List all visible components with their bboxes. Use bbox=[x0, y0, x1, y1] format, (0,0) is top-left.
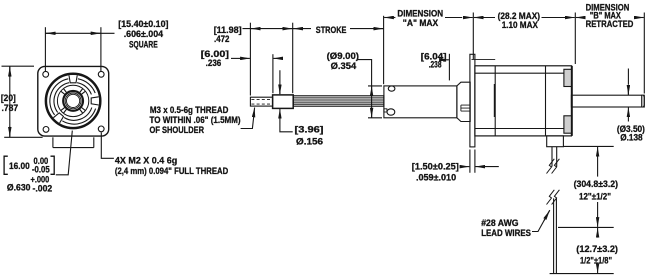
lead wires upper bundle bbox=[552, 147, 557, 167]
ext line shoulder left bbox=[272, 54, 274, 93]
can lip line top bbox=[475, 72, 572, 74]
svg-text:.238: .238 bbox=[429, 60, 442, 70]
bracket right of 16.00 bbox=[51, 156, 55, 174]
mounting flange plate (edge view) bbox=[470, 54, 475, 147]
dim 20 extension line bottom bbox=[4, 136, 42, 138]
front view: motor flange plate bbox=[38, 66, 109, 136]
rotor ring outer arcs with gaps bbox=[50, 79, 96, 124]
dim 3.96 arrow up and leader bbox=[279, 109, 281, 119]
dim 3.96 arrow down (above shoulder) bbox=[279, 70, 281, 94]
svg-text:[20]: [20] bbox=[1, 93, 16, 103]
ext line screw tip bbox=[249, 23, 251, 96]
bracket left of 16.00 bbox=[4, 156, 8, 174]
dim 15.40 arrow left bbox=[46, 32, 56, 34]
svg-text:.472: .472 bbox=[214, 34, 229, 44]
dim 11.98 line bbox=[243, 28, 293, 30]
clamp ring slot bbox=[461, 105, 470, 111]
svg-text:RETRACTED: RETRACTED bbox=[586, 19, 634, 29]
svg-text:[1.50±0.25]: [1.50±0.25] bbox=[412, 162, 459, 172]
dia 9.00 ext ticks bbox=[368, 86, 382, 118]
leader dia .630 bbox=[56, 131, 73, 175]
dim stroke line right bbox=[350, 28, 384, 30]
svg-text:Ø.354: Ø.354 bbox=[331, 61, 357, 71]
stud thread dashed line lower bbox=[251, 103, 272, 105]
leader lead wires bbox=[532, 210, 550, 231]
ring tab lower-left bbox=[53, 113, 63, 123]
mounting hole bottom-right bbox=[98, 126, 104, 132]
svg-text:Ø.138: Ø.138 bbox=[620, 133, 642, 143]
dim 12.7 upper arrow bbox=[597, 228, 599, 238]
dim stroke arrow left bbox=[293, 28, 303, 30]
motor can body bbox=[475, 66, 572, 136]
dim 6.00 leader line bbox=[231, 57, 247, 59]
lead wires lower bundle bbox=[554, 198, 557, 273]
svg-text:1.10 MAX: 1.10 MAX bbox=[502, 20, 539, 30]
mounting hole top-left bbox=[43, 71, 49, 77]
dia 9.00 leader bracket bbox=[357, 60, 372, 118]
dim 28.2 line and arrows bbox=[474, 17, 484, 19]
svg-text:-0.05: -0.05 bbox=[32, 165, 50, 175]
dim stroke arrow right bbox=[373, 28, 383, 30]
lead wire exit block bbox=[547, 136, 564, 147]
mounting hole top-right bbox=[98, 71, 104, 77]
svg-text:(304.8±3.2): (304.8±3.2) bbox=[574, 179, 618, 189]
svg-text:STROKE: STROKE bbox=[316, 25, 347, 35]
dim 6.00 arrow right bbox=[240, 57, 250, 59]
svg-text:4X M2 X 0.4 6g: 4X M2 X 0.4 6g bbox=[115, 156, 178, 166]
svg-text:#28 AWG: #28 AWG bbox=[481, 218, 518, 228]
dim 304.8 line lower segment with down arrow bbox=[597, 202, 599, 217]
dim B arrows bbox=[576, 17, 586, 19]
svg-text:(Ø9.00): (Ø9.00) bbox=[327, 51, 359, 61]
dia 9.00 arrow down bbox=[371, 108, 373, 118]
can right edge thick bbox=[571, 66, 573, 136]
svg-text:SQUARE: SQUARE bbox=[129, 39, 158, 49]
wire break mark upper bbox=[547, 159, 560, 174]
dim 6.04 ext line bbox=[448, 54, 450, 81]
can lip line bottom bbox=[475, 128, 572, 130]
pilot under-bracket left leg bbox=[52, 137, 54, 147]
shaft bore circle bbox=[67, 94, 80, 107]
svg-text:OF SHOULDER: OF SHOULDER bbox=[150, 125, 205, 135]
dim 12.7 lower arrow bbox=[597, 266, 599, 273]
ext line flange face bbox=[472, 13, 474, 60]
pilot boss circle (thick) bbox=[46, 74, 100, 128]
bushing circle bbox=[65, 93, 81, 109]
front housing sleeve (dia 9) bbox=[384, 86, 457, 118]
lead screw M3 threaded stud bbox=[250, 97, 272, 106]
leader 4X M2 holes bbox=[101, 133, 114, 159]
dim 20 extension line top bbox=[2, 65, 35, 67]
bearing tab lower-right bbox=[564, 116, 572, 133]
svg-text:-.002: -.002 bbox=[33, 184, 53, 194]
dia 3.50 arrow down bbox=[627, 69, 629, 95]
can seam front bbox=[494, 66, 496, 136]
wire break mark lower bbox=[547, 190, 560, 205]
dim stroke line left bbox=[293, 28, 311, 30]
svg-text:.236: .236 bbox=[206, 58, 222, 68]
ring tab top bbox=[69, 75, 77, 83]
spoke upper-left bbox=[61, 88, 67, 94]
spoke lower-right bbox=[79, 107, 85, 113]
leader M3 thread arrow bbox=[241, 113, 255, 129]
ext line shaft end bbox=[643, 13, 645, 94]
ring tab right bbox=[91, 97, 99, 105]
wire dim ext line bottom bbox=[550, 273, 614, 275]
svg-text:.787: .787 bbox=[2, 103, 19, 113]
housing hole upper bbox=[388, 86, 395, 91]
svg-text:(2,4 mm) 0.094" FULL THREAD: (2,4 mm) 0.094" FULL THREAD bbox=[115, 166, 229, 176]
svg-text:(12.7±3.2): (12.7±3.2) bbox=[576, 244, 618, 254]
ext line housing face bbox=[383, 16, 385, 84]
dim 1.50 ext lines below flange bbox=[470, 150, 475, 173]
dim 20 dimension line bbox=[9, 66, 11, 137]
svg-text:TO WITHIN .06" (1.5MM): TO WITHIN .06" (1.5MM) bbox=[150, 115, 241, 125]
lead screw body bbox=[293, 96, 384, 106]
lead screw thread lines bbox=[293, 98, 384, 104]
dim 11.98 arrow left bbox=[251, 28, 261, 30]
screw shoulder block bbox=[273, 95, 294, 109]
svg-text:LEAD WIRES: LEAD WIRES bbox=[481, 228, 531, 238]
bearing tab upper-right bbox=[564, 69, 572, 86]
svg-text:12"±1/2": 12"±1/2" bbox=[579, 191, 611, 201]
housing hole lower bbox=[387, 109, 395, 115]
dim 20 arrow down bbox=[9, 127, 11, 137]
pilot under-bracket right leg bbox=[93, 137, 95, 147]
dim 15.40 extension line right bbox=[100, 27, 102, 71]
dim 6.00 arrow outside left bbox=[273, 57, 283, 59]
wire dim ext line middle bbox=[558, 226, 614, 228]
stator middle circle bbox=[57, 85, 88, 116]
spoke upper-right bbox=[79, 88, 85, 94]
dim 15.40 extension line left bbox=[44, 27, 46, 71]
clamp ring with chamfers bbox=[457, 82, 470, 121]
svg-text:.059±.010: .059±.010 bbox=[416, 173, 456, 183]
dim 15.40 arrow right bbox=[90, 32, 100, 34]
mounting hole bottom-left bbox=[43, 126, 49, 132]
spoke lower-left bbox=[61, 107, 67, 113]
dia 3.50 arrow up bbox=[627, 107, 629, 117]
dim 20 arrow up bbox=[9, 67, 11, 77]
can seam rear bbox=[545, 66, 547, 136]
svg-text:[15.40±0.10]: [15.40±0.10] bbox=[118, 19, 168, 29]
ext line can rear bbox=[574, 13, 576, 65]
svg-text:Ø.630: Ø.630 bbox=[7, 182, 31, 192]
dim 15.40 dimension line bbox=[45, 32, 114, 34]
rear shaft end cap bbox=[642, 95, 645, 107]
dia 9.00 arrow up bbox=[371, 86, 373, 96]
ext line shoulder right bbox=[292, 23, 294, 94]
dim 304.8 line upper segment with up arrow bbox=[597, 147, 599, 157]
svg-text:"A" MAX: "A" MAX bbox=[403, 18, 439, 28]
svg-text:M3 x 0.5-6g THREAD: M3 x 0.5-6g THREAD bbox=[150, 105, 229, 115]
svg-text:1/2"±1/8": 1/2"±1/8" bbox=[580, 256, 612, 266]
hub ring (thick) bbox=[63, 91, 83, 111]
rotor ring inner arcs with gaps bbox=[54, 83, 92, 121]
dim 1.50 arrow right outside bbox=[475, 166, 498, 168]
svg-text:Ø.156: Ø.156 bbox=[296, 137, 323, 147]
pilot under-bracket bottom bbox=[53, 147, 94, 149]
faint top line on can front bbox=[472, 58, 496, 60]
housing notch square bbox=[384, 109, 387, 112]
svg-text:16.00: 16.00 bbox=[9, 161, 30, 171]
stud thread dashed line upper bbox=[251, 98, 272, 100]
rear shaft (retracted screw) bbox=[571, 95, 644, 107]
dim 6.04 leader arrow bbox=[447, 59, 449, 61]
dim A line and arrows bbox=[384, 17, 395, 19]
dim 11.98 arrow right bbox=[283, 28, 293, 30]
wire dim ext line top bbox=[563, 145, 613, 147]
svg-text:.606±.004: .606±.004 bbox=[124, 29, 164, 39]
svg-text:[3.96]: [3.96] bbox=[295, 125, 324, 135]
dim 1.50 arrow left outside bbox=[461, 166, 469, 168]
